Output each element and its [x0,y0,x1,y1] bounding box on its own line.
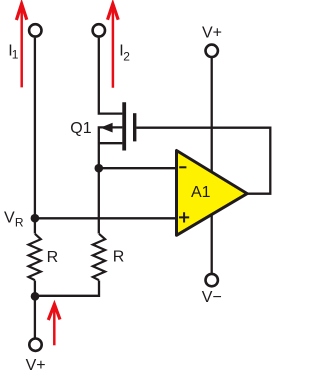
svg-text:A1: A1 [191,184,211,201]
transistor Q1 channel bar [122,102,126,150]
wire inverting input line: node A to op-amp - input [99,167,177,169]
svg-text:V−: V− [202,289,222,306]
resistor R2 zigzag [93,234,105,280]
svg-text:Q1: Q1 [70,120,91,137]
wire drain lead: I2 terminal down and right to Q1 channel [99,38,123,114]
op-amp minus input symbol [179,166,186,168]
op-amp plus input symbol [179,212,189,222]
svg-text:V+: V+ [202,24,222,41]
junction node A dot [95,164,104,173]
svg-text:R: R [47,249,59,266]
junction node VR dot [31,214,40,223]
svg-text:1: 1 [12,48,19,62]
wire left rail bottom: R1 bottom through node to V+ terminal [34,281,36,339]
wire power rail: V+ terminal through op-amp to V- terminal [211,58,213,273]
svg-text:R: R [113,249,125,266]
current arrow bottom (red) [48,304,60,345]
svg-text:V: V [4,210,15,227]
wire gate feedback loop: Q1 gate right, down, left to op-amp output [136,128,270,194]
svg-text:2: 2 [123,50,130,64]
wire Q1 body lead with bend down to node A [99,127,123,233]
wire noninverting input line: VR node to op-amp + input [35,217,177,219]
wire R2 bottom down and left to node B [35,281,99,296]
current arrow I1 (red) [16,4,26,88]
transistor Q1 body arrow [100,123,112,133]
terminal circle V+ bottom [29,339,41,351]
terminal circle V+ top [206,45,218,57]
svg-text:R: R [15,215,24,229]
junction node B dot [31,292,40,301]
op-amp A1 triangle [177,151,248,236]
wire Q1 source lead [99,142,123,144]
current arrow I2 (red) [108,4,119,88]
resistor R1 zigzag [29,234,41,280]
terminal circle I2 [93,24,105,36]
terminal circle V- bottom [206,274,218,286]
terminal circle I1 [29,24,41,36]
wire left rail top: I1 terminal to VR node to resistor R1 top [34,38,36,234]
svg-text:V+: V+ [26,357,46,374]
transistor Q1 gate bar [133,113,136,141]
